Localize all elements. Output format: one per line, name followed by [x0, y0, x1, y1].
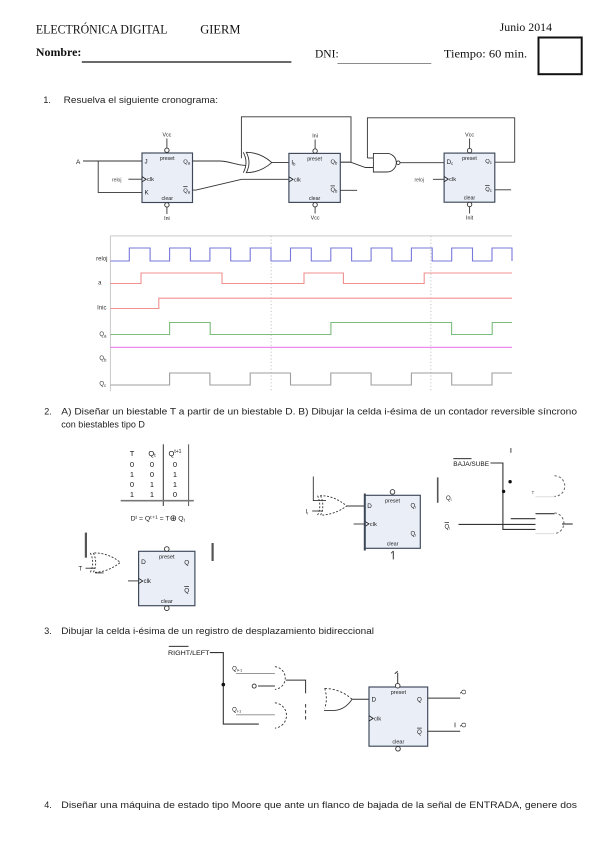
svg-text:0: 0 — [150, 470, 154, 479]
svg-text:Init: Init — [466, 216, 474, 222]
bubble U4 preset — [165, 547, 170, 552]
stray bar right 2A — [212, 543, 214, 561]
svg-text:Q: Q — [417, 729, 422, 736]
wire G9 out to U6 — [352, 698, 369, 700]
svg-text:D: D — [141, 559, 146, 566]
svg-text:preset: preset — [307, 156, 322, 162]
svg-text:T: T — [130, 449, 135, 458]
label Q out rotated — [460, 690, 467, 695]
svg-text:reloj: reloj — [96, 256, 107, 262]
svg-text:Ini: Ini — [164, 216, 170, 222]
svg-text:reloj: reloj — [415, 177, 424, 183]
wire G8 to OR (dashed) — [305, 704, 307, 720]
svg-text:Dibujar la celda i-ésima de un: Dibujar la celda i-ésima de un registro … — [61, 626, 374, 636]
svg-text:Qi: Qi — [446, 496, 452, 502]
thick left edge U5 — [364, 494, 366, 551]
svg-text:DNI:: DNI: — [315, 48, 339, 60]
svg-text:1: 1 — [130, 490, 134, 499]
tie symbol U5 clear — [391, 551, 393, 559]
svg-text:Nombre:: Nombre: — [36, 47, 82, 59]
and gate G5 upper (faint) — [532, 476, 565, 497]
svg-text:clk: clk — [144, 579, 152, 585]
signal Qa trace — [110, 323, 512, 335]
equation Dt — [131, 516, 186, 523]
signal Qb trace — [110, 346, 512, 348]
svg-text:D: D — [367, 503, 372, 510]
wire Q out U6 — [428, 697, 461, 699]
label Qbar out rotated — [455, 723, 467, 728]
svg-text:preset: preset — [385, 498, 400, 504]
svg-text:clear: clear — [392, 740, 404, 746]
svg-text:0: 0 — [130, 480, 134, 489]
truth table rows — [130, 460, 177, 499]
Vcc U1 preset — [162, 133, 171, 153]
svg-text:Dᵗ = Qᵗ⁺¹ = T: Dᵗ = Qᵗ⁺¹ = T — [131, 516, 170, 523]
svg-text:Q: Q — [184, 560, 189, 567]
svg-text:clear: clear — [464, 196, 476, 202]
wire Qi-bar long — [459, 523, 536, 525]
svg-text:1: 1 — [173, 470, 177, 479]
wire BAJA/SUBE down — [491, 463, 536, 529]
Vcc U3 preset — [465, 133, 474, 153]
svg-text:1: 1 — [150, 490, 154, 499]
and gate G6 lower — [511, 513, 573, 534]
wire NAND out to U3 — [400, 162, 444, 164]
signal Qb label — [99, 356, 107, 363]
svg-text:preset: preset — [462, 156, 477, 162]
Ini U2 preset — [312, 134, 318, 154]
svg-text:D: D — [372, 697, 377, 704]
label reloj U1 — [112, 177, 121, 183]
wire feedback into G4 — [313, 477, 326, 501]
svg-text:1.: 1. — [43, 95, 51, 105]
svg-text:0: 0 — [173, 490, 177, 499]
signal Qa label — [99, 332, 107, 339]
svg-text:clk: clk — [370, 522, 377, 528]
svg-text:Qi: Qi — [445, 525, 451, 531]
bubble U5 preset — [390, 490, 395, 495]
bubble G7 input — [252, 684, 275, 688]
svg-text:clear: clear — [162, 196, 174, 202]
timing cursor 1 — [270, 236, 272, 391]
svg-text:Inic: Inic — [97, 305, 106, 311]
and gate G7 upper (sketch) — [275, 667, 285, 690]
svg-text:BAJA/SUBE: BAJA/SUBE — [453, 461, 489, 468]
svg-text:T: T — [532, 490, 535, 495]
svg-text:1: 1 — [150, 480, 154, 489]
svg-text:A: A — [76, 159, 81, 166]
svg-text:T: T — [79, 567, 83, 573]
tick mark top — [510, 448, 512, 453]
flip-flop U2 — [289, 153, 340, 202]
Ini U1 clear — [164, 203, 170, 222]
truth table header — [130, 449, 182, 459]
wire G7 out — [286, 680, 306, 693]
svg-text:Qi+1: Qi+1 — [232, 667, 243, 673]
and gate G8 lower (sketch) — [275, 703, 287, 728]
stray bar 2B — [437, 477, 439, 502]
svg-text:preset: preset — [159, 554, 175, 560]
junction dot 2 — [502, 490, 505, 493]
timing cursor 2 — [430, 236, 432, 391]
flip-flop U4 (D) — [139, 551, 195, 605]
wire Qb to NAND — [340, 162, 373, 167]
svg-text:con biestables tipo D: con biestables tipo D — [61, 419, 145, 429]
svg-text:Q: Q — [460, 723, 467, 728]
junction dot 1 — [508, 480, 511, 483]
item 1 text — [43, 95, 218, 105]
svg-text:clear: clear — [309, 196, 321, 202]
wire feedback Qb to XOR — [241, 117, 351, 162]
svg-text:4.: 4. — [44, 800, 52, 810]
truth table lines — [121, 444, 194, 506]
xor gate G4 (sketch) — [318, 496, 347, 515]
svg-text:Qa: Qa — [183, 188, 191, 194]
flip-flop U3 (D) — [444, 153, 495, 202]
signal a trace — [110, 273, 512, 284]
junction dot R/L — [222, 683, 226, 687]
xor gate G3 (sketch) — [90, 553, 120, 572]
wire Qb-bar stub — [340, 189, 357, 191]
svg-text:Q: Q — [460, 690, 467, 695]
svg-text:RIGHT/LEFT: RIGHT/LEFT — [168, 650, 210, 657]
svg-text:clk: clk — [147, 177, 154, 183]
node A label — [76, 159, 81, 166]
svg-text:J: J — [145, 158, 148, 165]
name line — [36, 47, 527, 64]
signal reloj label — [96, 256, 107, 262]
flip-flop U6 (D) — [369, 687, 428, 746]
svg-text:Ii: Ii — [306, 510, 309, 516]
svg-text:preset: preset — [391, 690, 407, 696]
svg-text:Q: Q — [184, 588, 189, 595]
wire A to J — [83, 160, 142, 162]
signal reloj trace — [110, 248, 512, 261]
svg-text:Qb: Qb — [331, 188, 339, 194]
svg-text:Qi: Qi — [411, 504, 417, 510]
svg-text:reloj: reloj — [112, 177, 121, 183]
svg-text:Junio 2014: Junio 2014 — [500, 22, 553, 34]
svg-text:clear: clear — [387, 542, 399, 548]
svg-text:ELECTRÓNICA DIGITAL: ELECTRÓNICA DIGITAL — [36, 22, 168, 37]
svg-text:0: 0 — [130, 460, 134, 469]
Vcc U2 clear — [311, 203, 320, 222]
grade box — [539, 38, 582, 75]
nand gate G2 — [373, 153, 400, 172]
svg-text:0: 0 — [173, 460, 177, 469]
wire RIGHT/LEFT down — [210, 653, 259, 725]
svg-text:Diseñar una máquina de estado: Diseñar una máquina de estado tipo Moore… — [61, 800, 577, 810]
label Qi — [446, 496, 452, 502]
xor gate G1 — [243, 152, 271, 172]
svg-text:Resuelva el siguiente cronogra: Resuelva el siguiente cronograma: — [64, 95, 218, 105]
wire stub below G3 — [95, 572, 103, 574]
label RIGHT/LEFT — [168, 646, 210, 657]
label T input 2A — [79, 567, 83, 573]
signal Inic trace — [110, 298, 512, 308]
svg-text:Qi-1: Qi-1 — [232, 708, 242, 714]
label BAJA/SUBE — [453, 459, 489, 468]
wire Qa-bar to clk U2 — [193, 179, 289, 190]
svg-text:Qa: Qa — [183, 159, 191, 165]
svg-text:1: 1 — [130, 470, 134, 479]
svg-text:Qi: Qi — [411, 532, 417, 538]
svg-text:Tiempo: 60 min.: Tiempo: 60 min. — [444, 48, 527, 60]
svg-text:Vcc: Vcc — [465, 133, 474, 139]
timing frame — [110, 236, 512, 391]
svg-text:1: 1 — [173, 480, 177, 489]
wire feedback Qc to NAND — [367, 118, 514, 162]
svg-text:Ini: Ini — [312, 134, 318, 140]
label K input U1 — [145, 190, 150, 197]
wire Qi-1 input — [236, 714, 275, 716]
or gate G9 (sketch) — [324, 688, 352, 710]
wire clk input U4 — [128, 580, 139, 582]
label Qi+1 — [232, 667, 243, 673]
svg-text:clk: clk — [374, 716, 381, 722]
tie-high U6 preset — [395, 671, 400, 688]
svg-text:Vcc: Vcc — [311, 216, 320, 222]
item 4 text — [44, 800, 577, 810]
svg-text:A) Diseñar un biestable T a pa: A) Diseñar un biestable T a partir de un… — [61, 406, 577, 416]
item 3 text — [44, 626, 374, 636]
Init U3 clear — [466, 202, 474, 221]
bubble U6 clear — [396, 747, 401, 752]
flip-flop U5 (D) — [365, 495, 421, 548]
header title — [36, 22, 552, 37]
svg-text:2.: 2. — [44, 406, 52, 416]
wire Qa to XOR — [193, 161, 246, 165]
wire Qi+1 input — [236, 672, 275, 674]
bubble U4 clear — [165, 606, 170, 611]
label Qi-bar — [445, 522, 451, 530]
wire Ii input — [312, 510, 323, 512]
wire XOR out to U2 — [272, 162, 289, 164]
svg-text:Qc: Qc — [485, 187, 492, 193]
svg-text:Qc: Qc — [485, 159, 492, 165]
stray bar left 2A — [85, 533, 87, 558]
wire G4 out to U5 — [347, 505, 365, 507]
wire NAND top input — [367, 157, 373, 159]
svg-text:clk: clk — [449, 177, 456, 183]
item 2 text — [44, 406, 577, 429]
wire T input 2A — [86, 567, 96, 569]
svg-text:GIERM: GIERM — [200, 22, 241, 37]
wire Qbar out U6 — [428, 730, 461, 732]
signal Inic label — [97, 305, 106, 311]
wire reloj to clk U1 — [128, 178, 142, 180]
svg-text:3.: 3. — [44, 626, 52, 636]
svg-text:Vcc: Vcc — [162, 133, 171, 139]
wire A branch to K — [98, 161, 142, 192]
signal Qc label — [99, 381, 107, 388]
wire Qc-bar stub — [495, 189, 511, 191]
svg-text:Q: Q — [417, 697, 422, 704]
signal a label — [98, 281, 102, 287]
svg-text:0: 0 — [150, 460, 154, 469]
flip-flop U1 (JK) — [142, 153, 193, 203]
label Ii input — [306, 510, 309, 516]
svg-text:Dc: Dc — [447, 159, 454, 166]
label Qi-1 — [232, 708, 242, 714]
svg-text:clear: clear — [161, 599, 173, 605]
wire clk input U5 — [354, 523, 365, 525]
label reloj U3 — [415, 177, 424, 183]
wire reloj to clk U3 — [433, 178, 444, 180]
svg-text:clk: clk — [294, 177, 301, 183]
svg-text:Qb: Qb — [331, 160, 339, 166]
svg-text:preset: preset — [160, 156, 175, 162]
